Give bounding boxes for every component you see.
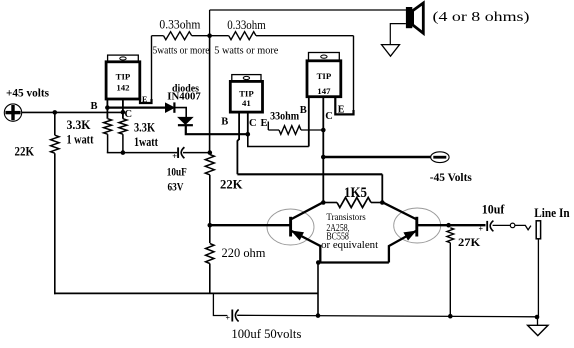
node J6 xyxy=(321,155,326,160)
power terminal +45V xyxy=(4,104,21,121)
wire riser 1K5 right xyxy=(381,174,383,202)
svg-text:C: C xyxy=(125,109,133,120)
wire jack link xyxy=(515,225,531,229)
svg-text:41: 41 xyxy=(242,98,251,108)
wire C leg U1 xyxy=(122,99,124,119)
svg-text:IN4007: IN4007 xyxy=(167,91,201,103)
ground speaker xyxy=(382,45,400,57)
svg-text:Line In: Line In xyxy=(534,206,569,220)
wire 27K down xyxy=(449,243,451,317)
node 27K bottom xyxy=(448,314,453,319)
emitter arrow Q4 xyxy=(292,231,303,239)
speaker LS1 xyxy=(406,7,412,28)
svg-text:+: + xyxy=(226,314,231,323)
svg-text:E: E xyxy=(142,95,147,104)
transistor Q5 circle xyxy=(394,208,441,243)
ground input xyxy=(528,325,548,335)
power terminal -45V xyxy=(431,152,449,163)
resistor 0.33ohm 2 xyxy=(229,32,256,40)
svg-text:22K: 22K xyxy=(220,178,243,192)
node J2 xyxy=(121,150,126,155)
wire tail xyxy=(317,263,319,316)
wire 0.33 mid xyxy=(192,35,229,37)
svg-text:B: B xyxy=(221,117,228,128)
terminal circle xyxy=(510,223,515,228)
node 33ohm C junction xyxy=(321,128,326,133)
svg-text:10uf: 10uf xyxy=(482,203,505,217)
diode D1 IN4007 xyxy=(166,103,175,112)
wire emitter Q5 xyxy=(389,231,417,263)
node base Q5 junction xyxy=(446,223,451,228)
svg-text:TIP: TIP xyxy=(239,89,254,99)
svg-text:Transistors: Transistors xyxy=(326,212,365,223)
capacitor 10uf input xyxy=(486,221,488,231)
wire center vertical 3 xyxy=(209,264,211,294)
wire collector Q5 xyxy=(382,202,417,219)
svg-text:+: + xyxy=(172,151,177,161)
svg-text:1watt: 1watt xyxy=(134,135,159,149)
wire left vertical top xyxy=(54,112,56,135)
svg-text:3.3K: 3.3K xyxy=(67,118,91,132)
wire 3.3K a bottom xyxy=(107,134,109,152)
base bar Q4 xyxy=(289,217,292,237)
diode D2 IN4007 xyxy=(178,117,192,124)
wire E leg Q2 xyxy=(267,122,269,131)
node J4 xyxy=(208,150,213,155)
node C Q2 xyxy=(246,132,251,137)
wire C leg Q3 xyxy=(322,97,324,203)
wire B leg U1 xyxy=(106,99,108,119)
svg-text:142: 142 xyxy=(116,83,130,93)
svg-text:10uF: 10uF xyxy=(167,164,187,178)
node tail bottom xyxy=(316,313,321,318)
svg-text:E: E xyxy=(261,118,268,129)
wire emitter Q4 xyxy=(291,231,321,263)
wire C route Q2 xyxy=(248,134,309,146)
wire base Q4 xyxy=(210,224,291,226)
svg-text:0.33ohm: 0.33ohm xyxy=(159,17,200,32)
wire cap to jack xyxy=(493,224,511,226)
svg-text:TIP: TIP xyxy=(116,72,131,82)
transistor Q4 circle xyxy=(267,209,314,245)
wire cap row xyxy=(107,152,177,154)
svg-text:B: B xyxy=(300,105,307,116)
wire +45 rail xyxy=(22,111,124,113)
wire center vertical 2 xyxy=(209,175,211,243)
wire 1K5 left xyxy=(323,202,337,204)
wire 1K5 right xyxy=(371,202,382,204)
wire -45 feed xyxy=(323,156,431,158)
wire B to diode xyxy=(107,106,165,108)
resistor 33ohm xyxy=(279,126,301,135)
jack Line In xyxy=(536,221,540,239)
svg-text:or equivalent: or equivalent xyxy=(321,240,378,251)
capacitor 10uF 63V xyxy=(177,147,179,158)
svg-text:B: B xyxy=(91,101,98,112)
wire D1 to D2 xyxy=(174,108,186,118)
wire B leg Q2 xyxy=(238,112,240,140)
svg-text:-45 Volts: -45 Volts xyxy=(430,170,472,184)
wire B descender xyxy=(237,139,239,174)
svg-text:33ohm: 33ohm xyxy=(270,109,299,123)
wire E route Q3 xyxy=(335,97,353,114)
resistor 27K xyxy=(447,228,454,243)
wire bottom rail xyxy=(54,292,318,294)
wire speaker gnd xyxy=(390,24,406,45)
wire to speaker xyxy=(210,9,407,11)
wire feedback row xyxy=(237,173,382,175)
wire 0.33 row xyxy=(152,35,164,37)
transistor Q3 TIP147 xyxy=(309,53,340,61)
node B U1 xyxy=(105,105,110,110)
svg-text:27K: 27K xyxy=(458,235,481,249)
wire D2 down xyxy=(186,125,248,134)
svg-text:+45 volts: +45 volts xyxy=(6,86,49,100)
node 1K5 left xyxy=(321,200,326,205)
resistor 22K mid xyxy=(205,155,214,175)
node J1 xyxy=(53,110,58,115)
node J5 xyxy=(208,223,213,228)
wire E route U1 xyxy=(140,99,152,104)
wire B leg Q3 xyxy=(308,97,310,147)
svg-text:1 watt: 1 watt xyxy=(67,133,95,147)
svg-text:0.33ohm: 0.33ohm xyxy=(227,17,266,32)
svg-text:147: 147 xyxy=(317,86,331,96)
wire output riser xyxy=(209,10,211,36)
wire 33ohm right xyxy=(301,129,323,131)
wire 100uf branch xyxy=(213,293,227,315)
svg-text:5 watts or more: 5 watts or more xyxy=(214,45,278,57)
transistor U1 TIP142 xyxy=(108,55,139,62)
svg-text:100uf 50volts: 100uf 50volts xyxy=(231,326,301,341)
base bar Q5 xyxy=(415,217,418,237)
resistor 3.3K a xyxy=(104,119,112,135)
node emitters xyxy=(316,260,321,265)
svg-text:C: C xyxy=(249,118,257,129)
wire 0.33 right xyxy=(256,35,354,37)
wire base Q5 xyxy=(417,224,486,226)
wire C leg Q2 xyxy=(247,112,249,134)
resistor 220ohm xyxy=(206,244,214,264)
wire collector Q4 xyxy=(291,202,324,219)
node 1K5 right xyxy=(380,200,385,205)
resistor 22K left xyxy=(51,135,59,153)
svg-text:1K5: 1K5 xyxy=(344,185,367,201)
wire center vertical xyxy=(209,36,211,155)
node C U1 xyxy=(121,110,126,115)
svg-text:220 ohm: 220 ohm xyxy=(222,245,266,260)
svg-text:22K: 22K xyxy=(15,145,35,159)
transistor Q2 TIP41 xyxy=(232,75,261,82)
node input ground xyxy=(535,315,540,320)
resistor 1K5 xyxy=(337,198,371,208)
wire 3.3K b bottom xyxy=(122,134,124,152)
capacitor 100uf 50volts xyxy=(231,310,233,322)
wire emitters join xyxy=(320,261,389,263)
emitter arrow Q5 xyxy=(404,231,415,240)
svg-text:TIP: TIP xyxy=(317,71,332,81)
wire bottom signal xyxy=(237,315,536,317)
svg-text:(4 or 8 ohms): (4 or 8 ohms) xyxy=(433,9,530,24)
svg-text:63V: 63V xyxy=(168,179,184,193)
svg-text:C: C xyxy=(325,111,333,122)
svg-text:5watts or more: 5watts or more xyxy=(153,45,210,57)
wire left vertical bottom xyxy=(54,153,56,294)
svg-text:3.3K: 3.3K xyxy=(134,121,155,135)
svg-text:+: + xyxy=(479,225,484,234)
wire 33ohm left xyxy=(268,129,279,131)
wire cap to center xyxy=(183,152,210,154)
node J3 xyxy=(207,33,212,38)
wire jack ground xyxy=(537,239,539,317)
resistor 0.33ohm 1 xyxy=(164,32,192,40)
resistor 3.3K b xyxy=(119,119,127,135)
wire gnd stub xyxy=(537,317,539,325)
